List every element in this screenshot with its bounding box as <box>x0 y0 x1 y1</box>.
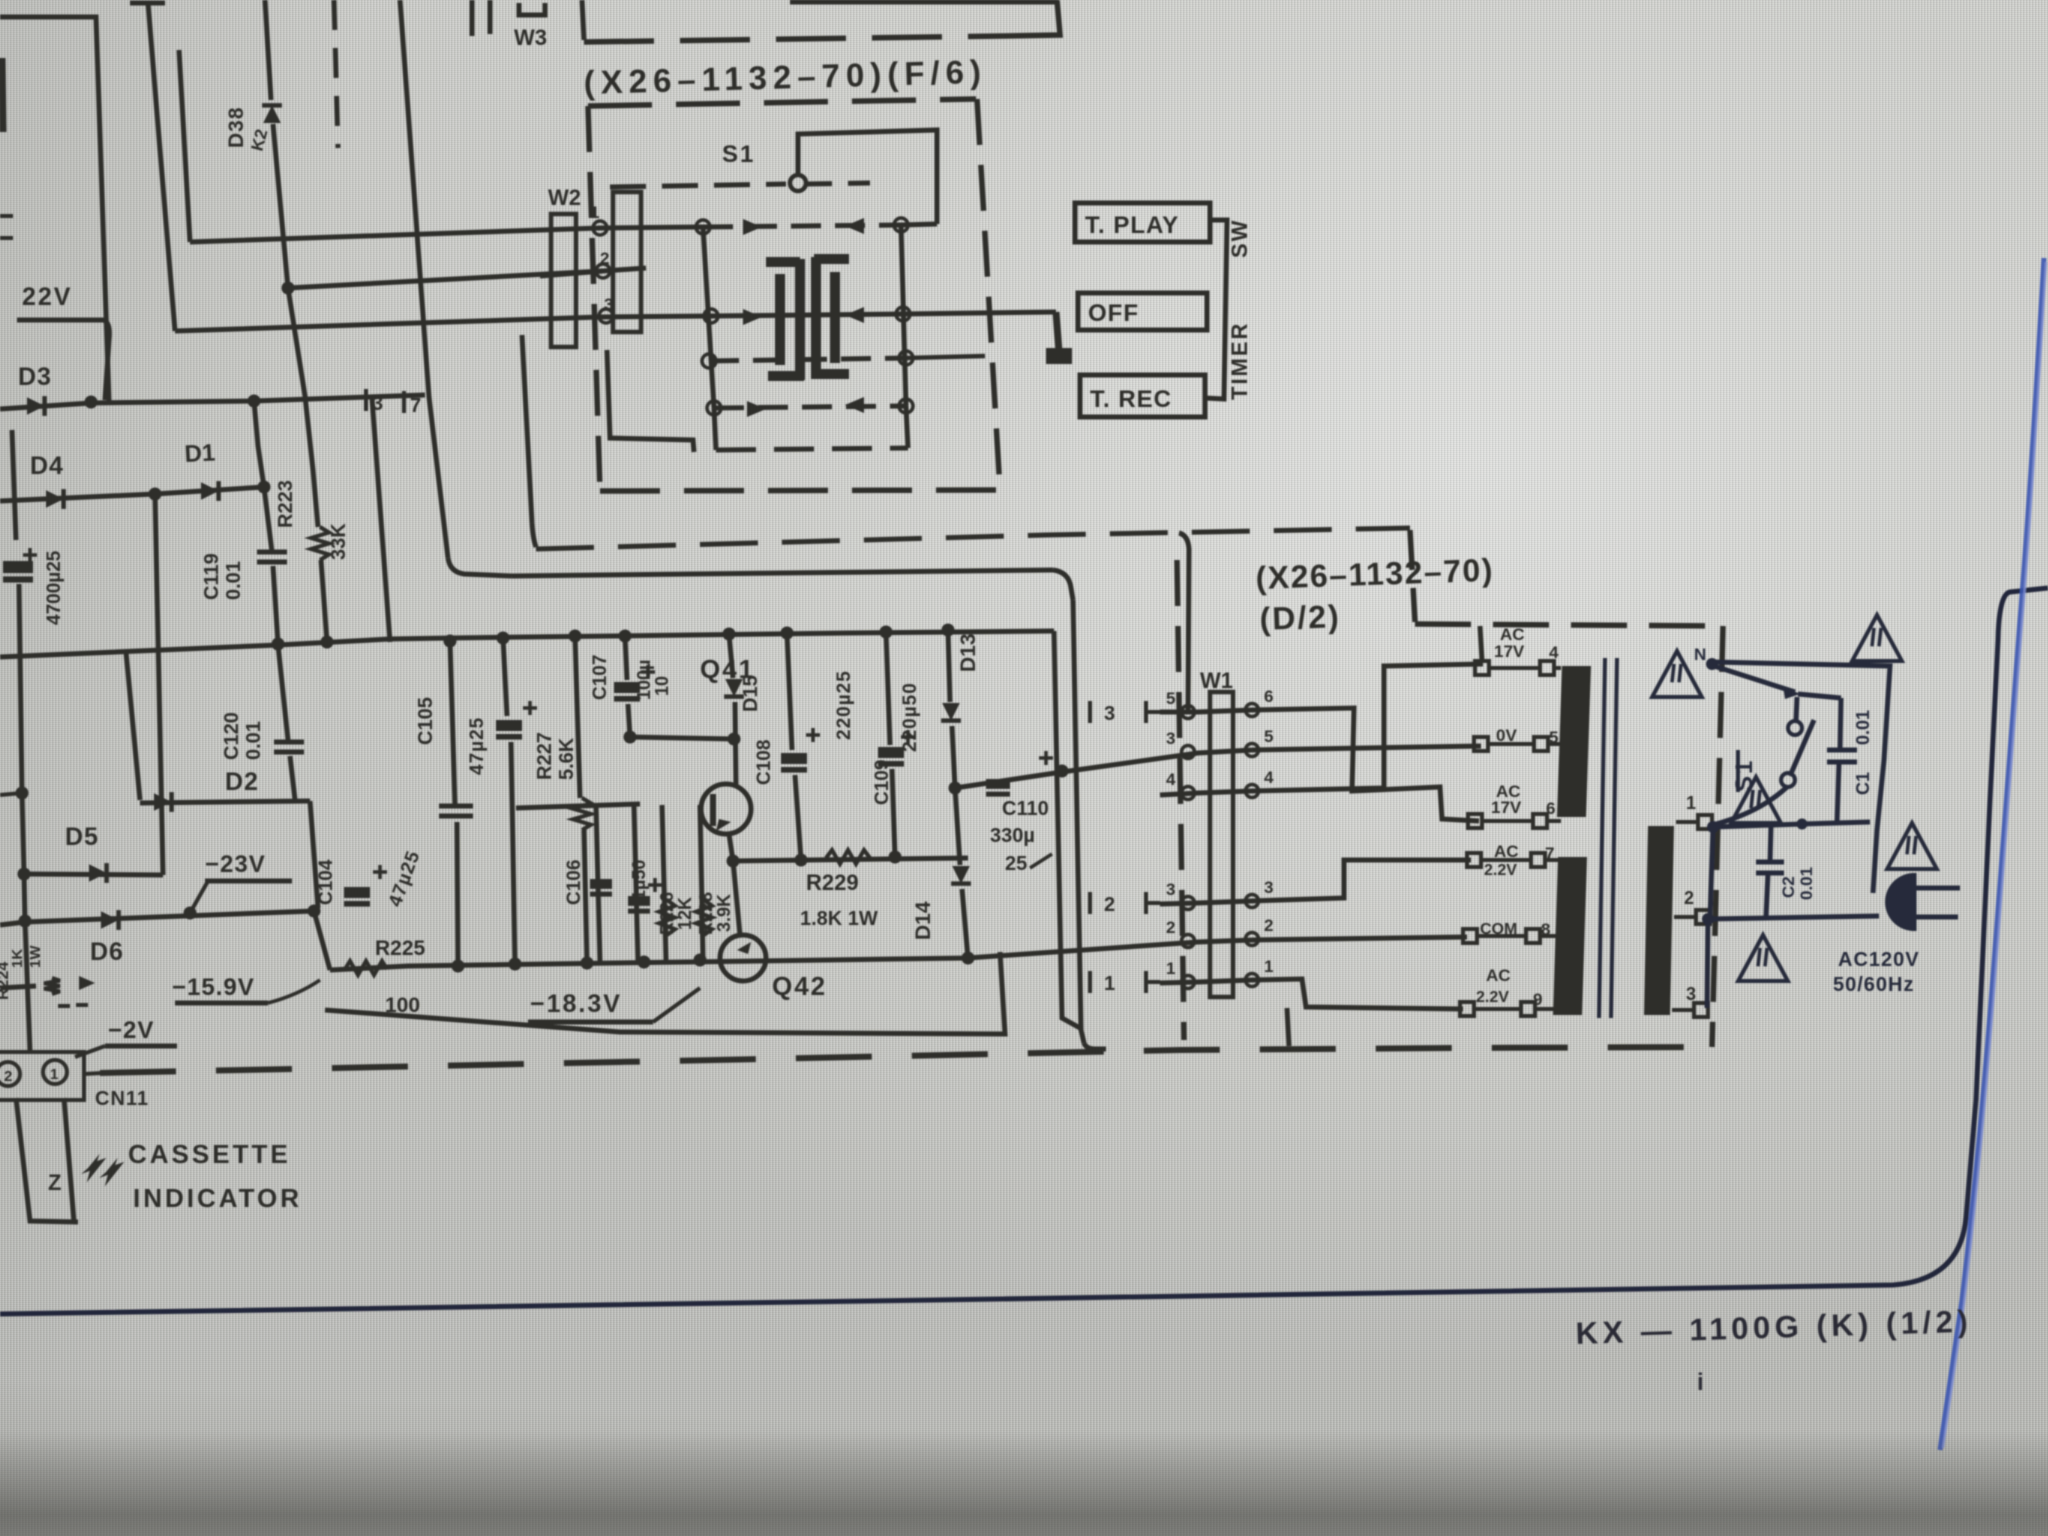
svg-text:C107: C107 <box>590 655 611 700</box>
svg-text:R226: R226 <box>657 892 677 935</box>
svg-text:TIMER: TIMER <box>1227 322 1252 400</box>
svg-text:47µ25: 47µ25 <box>385 848 425 910</box>
svg-text:D5: D5 <box>65 823 99 851</box>
svg-text:2: 2 <box>1104 894 1115 916</box>
svg-text:6: 6 <box>1264 687 1273 706</box>
svg-text:Q42: Q42 <box>772 971 827 1001</box>
svg-text:INDICATOR: INDICATOR <box>133 1183 302 1213</box>
svg-text:3: 3 <box>1104 703 1115 725</box>
svg-text:3: 3 <box>604 295 613 314</box>
svg-text:9: 9 <box>1533 990 1542 1009</box>
svg-text:R223: R223 <box>275 480 297 528</box>
svg-text:33K: 33K <box>328 523 350 560</box>
svg-text:D3: D3 <box>18 363 52 391</box>
svg-text:R229: R229 <box>806 870 859 895</box>
svg-text:AC: AC <box>1486 966 1511 985</box>
svg-text:3: 3 <box>1166 729 1175 748</box>
svg-text:1: 1 <box>1104 973 1115 995</box>
svg-text:D38: D38 <box>225 106 248 148</box>
svg-text:0.01: 0.01 <box>1853 710 1873 745</box>
svg-text:Q41: Q41 <box>700 654 755 684</box>
svg-text:C119: C119 <box>201 553 223 600</box>
svg-text:C106: C106 <box>564 860 585 905</box>
svg-text:3: 3 <box>1686 984 1696 1004</box>
svg-text:4700µ25: 4700µ25 <box>44 550 65 625</box>
svg-text:C108: C108 <box>754 740 775 785</box>
svg-text:C105: C105 <box>415 697 437 745</box>
svg-text:220µ25: 220µ25 <box>834 670 855 740</box>
svg-text:−2V: −2V <box>108 1017 154 1044</box>
svg-text:(X26–1132–70): (X26–1132–70) <box>1255 552 1494 596</box>
svg-text:D6: D6 <box>90 938 124 966</box>
svg-text:(D/2): (D/2) <box>1259 598 1341 637</box>
svg-text:2: 2 <box>1166 918 1175 937</box>
svg-text:3: 3 <box>1264 878 1273 897</box>
svg-text:D4: D4 <box>30 452 64 480</box>
svg-text:2: 2 <box>4 1068 12 1085</box>
svg-text:CN11: CN11 <box>95 1088 149 1110</box>
svg-text:C110: C110 <box>1002 798 1049 820</box>
svg-text:220µ50: 220µ50 <box>900 682 921 752</box>
svg-text:4: 4 <box>1264 768 1274 787</box>
svg-text:−18.3V: −18.3V <box>530 990 622 1018</box>
svg-text:47µ25: 47µ25 <box>467 717 488 775</box>
svg-text:W3: W3 <box>514 25 547 50</box>
svg-text:4: 4 <box>1549 643 1559 662</box>
svg-text:1: 1 <box>1686 793 1696 813</box>
svg-text:AC: AC <box>1494 842 1519 861</box>
svg-text:17V: 17V <box>1491 798 1522 817</box>
svg-text:N: N <box>1694 645 1706 664</box>
svg-text:5.6K: 5.6K <box>556 737 578 780</box>
svg-text:OFF: OFF <box>1088 300 1139 327</box>
svg-text:25: 25 <box>1005 853 1027 875</box>
svg-text:K2: K2 <box>248 127 272 153</box>
svg-text:0V: 0V <box>1496 726 1517 745</box>
svg-text:S1: S1 <box>1731 759 1758 792</box>
svg-text:Z: Z <box>48 1170 61 1195</box>
svg-text:1W: 1W <box>27 945 44 968</box>
svg-text:C104: C104 <box>316 859 337 905</box>
svg-text:22V: 22V <box>22 283 72 311</box>
svg-text:1µ50: 1µ50 <box>629 860 649 900</box>
svg-text:W2: W2 <box>548 185 581 210</box>
svg-text:D14: D14 <box>912 901 935 940</box>
svg-text:1K: 1K <box>9 949 26 968</box>
svg-text:SW: SW <box>1227 219 1252 258</box>
svg-text:2.2V: 2.2V <box>1484 862 1517 879</box>
svg-text:10: 10 <box>652 676 672 696</box>
svg-text:−23V: −23V <box>205 851 266 878</box>
svg-text:8: 8 <box>1541 920 1550 939</box>
svg-text:7: 7 <box>1545 844 1554 863</box>
svg-text:6: 6 <box>1546 799 1555 818</box>
svg-text:AC120V: AC120V <box>1838 949 1920 971</box>
svg-text:100µ: 100µ <box>634 660 654 700</box>
svg-text:0.01: 0.01 <box>243 721 265 760</box>
svg-text:R228: R228 <box>696 892 716 935</box>
svg-text:3: 3 <box>372 393 383 415</box>
svg-text:0.01: 0.01 <box>1797 867 1816 900</box>
svg-text:1: 1 <box>1264 957 1273 976</box>
svg-text:2: 2 <box>1684 888 1694 908</box>
svg-text:−15.9V: −15.9V <box>172 974 255 1001</box>
svg-text:2.2V: 2.2V <box>1476 989 1509 1006</box>
svg-text:COM: COM <box>1480 921 1517 938</box>
svg-text:4: 4 <box>1166 770 1176 789</box>
svg-text:1: 1 <box>50 1066 58 1083</box>
svg-text:T. REC: T. REC <box>1090 386 1172 413</box>
svg-text:C120: C120 <box>221 712 243 760</box>
svg-text:7: 7 <box>410 395 421 417</box>
svg-text:0.01: 0.01 <box>223 561 245 600</box>
svg-text:17V: 17V <box>1494 642 1525 661</box>
svg-text:5: 5 <box>1549 728 1558 747</box>
svg-text:50/60Hz: 50/60Hz <box>1833 974 1915 996</box>
svg-text:W1: W1 <box>1200 668 1233 693</box>
svg-text:D2: D2 <box>225 768 259 796</box>
svg-text:D13: D13 <box>957 633 980 672</box>
svg-text:D1: D1 <box>184 439 216 468</box>
svg-text:C2: C2 <box>1779 876 1798 898</box>
svg-text:2: 2 <box>600 249 609 268</box>
svg-text:C1: C1 <box>1853 772 1873 795</box>
svg-text:1: 1 <box>590 203 599 222</box>
svg-text:R225: R225 <box>375 937 426 960</box>
svg-text:CASSETTE: CASSETTE <box>128 1139 291 1169</box>
svg-text:R227: R227 <box>534 732 556 780</box>
svg-text:(X26–1132–70)(F/6): (X26–1132–70)(F/6) <box>583 53 987 101</box>
svg-text:1.8K 1W: 1.8K 1W <box>800 908 878 930</box>
svg-text:5: 5 <box>1264 727 1273 746</box>
svg-text:12K: 12K <box>675 897 695 930</box>
svg-text:2: 2 <box>1264 916 1273 935</box>
svg-text:3: 3 <box>1166 880 1175 899</box>
svg-text:3.9K: 3.9K <box>714 894 734 932</box>
svg-text:5: 5 <box>1166 689 1175 708</box>
svg-text:T. PLAY: T. PLAY <box>1085 212 1179 239</box>
svg-text:1: 1 <box>1166 959 1175 978</box>
svg-text:S1: S1 <box>722 141 755 168</box>
svg-text:330µ: 330µ <box>990 825 1035 847</box>
